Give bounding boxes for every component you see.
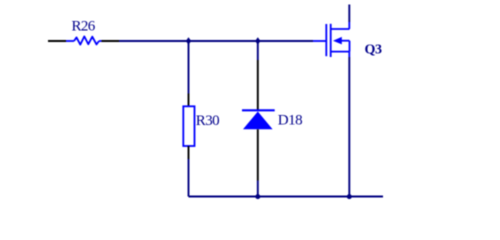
wire: R30 bottom pin: [188, 146, 190, 159]
transistor Q3 (N-MOSFET): [326, 22, 349, 57]
wire: D18 cathode pin: [257, 60, 259, 111]
wire: R30 top pin: [188, 94, 190, 107]
wire: Q3 source down: [348, 57, 350, 197]
svg-text:R26: R26: [72, 19, 96, 35]
wire: bottom net horizontal: [189, 196, 384, 198]
diode D18: [242, 110, 275, 129]
resistor R30: [183, 106, 194, 146]
node junction at D18 bottom: [255, 194, 260, 199]
wire: left input lead (pin of R26): [48, 40, 66, 42]
wire: D18 to bottom net: [257, 181, 259, 197]
wire: D18 anode pin: [257, 129, 259, 180]
wire: R30 to bottom net: [188, 159, 190, 197]
wire: vertical branch to D18: [257, 41, 259, 60]
node junction at D18 branch: [255, 37, 260, 45]
wire: gate net to Q3: [313, 40, 326, 42]
wire: vertical branch to R30: [188, 41, 190, 94]
node junction at R30 branch: [186, 37, 191, 45]
wire: top net horizontal: [119, 40, 313, 42]
wire: Q3 drain up: [348, 5, 350, 23]
resistor R26: [66, 36, 102, 44]
node junction at Q3 source bottom: [347, 194, 352, 199]
wire: R26 right pin: [102, 40, 120, 42]
svg-text:R30: R30: [196, 113, 219, 129]
svg-text:D18: D18: [278, 113, 302, 129]
svg-text:Q3: Q3: [365, 43, 382, 58]
